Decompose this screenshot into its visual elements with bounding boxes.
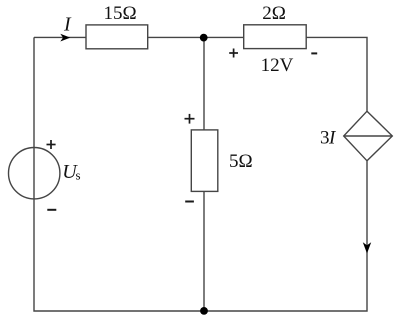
svg-text:2Ω: 2Ω bbox=[262, 3, 286, 24]
svg-text:I: I bbox=[63, 14, 72, 36]
svg-text:12V: 12V bbox=[261, 55, 294, 76]
svg-text:5Ω: 5Ω bbox=[229, 151, 253, 172]
svg-text:s: s bbox=[76, 168, 81, 183]
svg-text:I: I bbox=[328, 128, 337, 149]
svg-text:15Ω: 15Ω bbox=[103, 3, 136, 24]
